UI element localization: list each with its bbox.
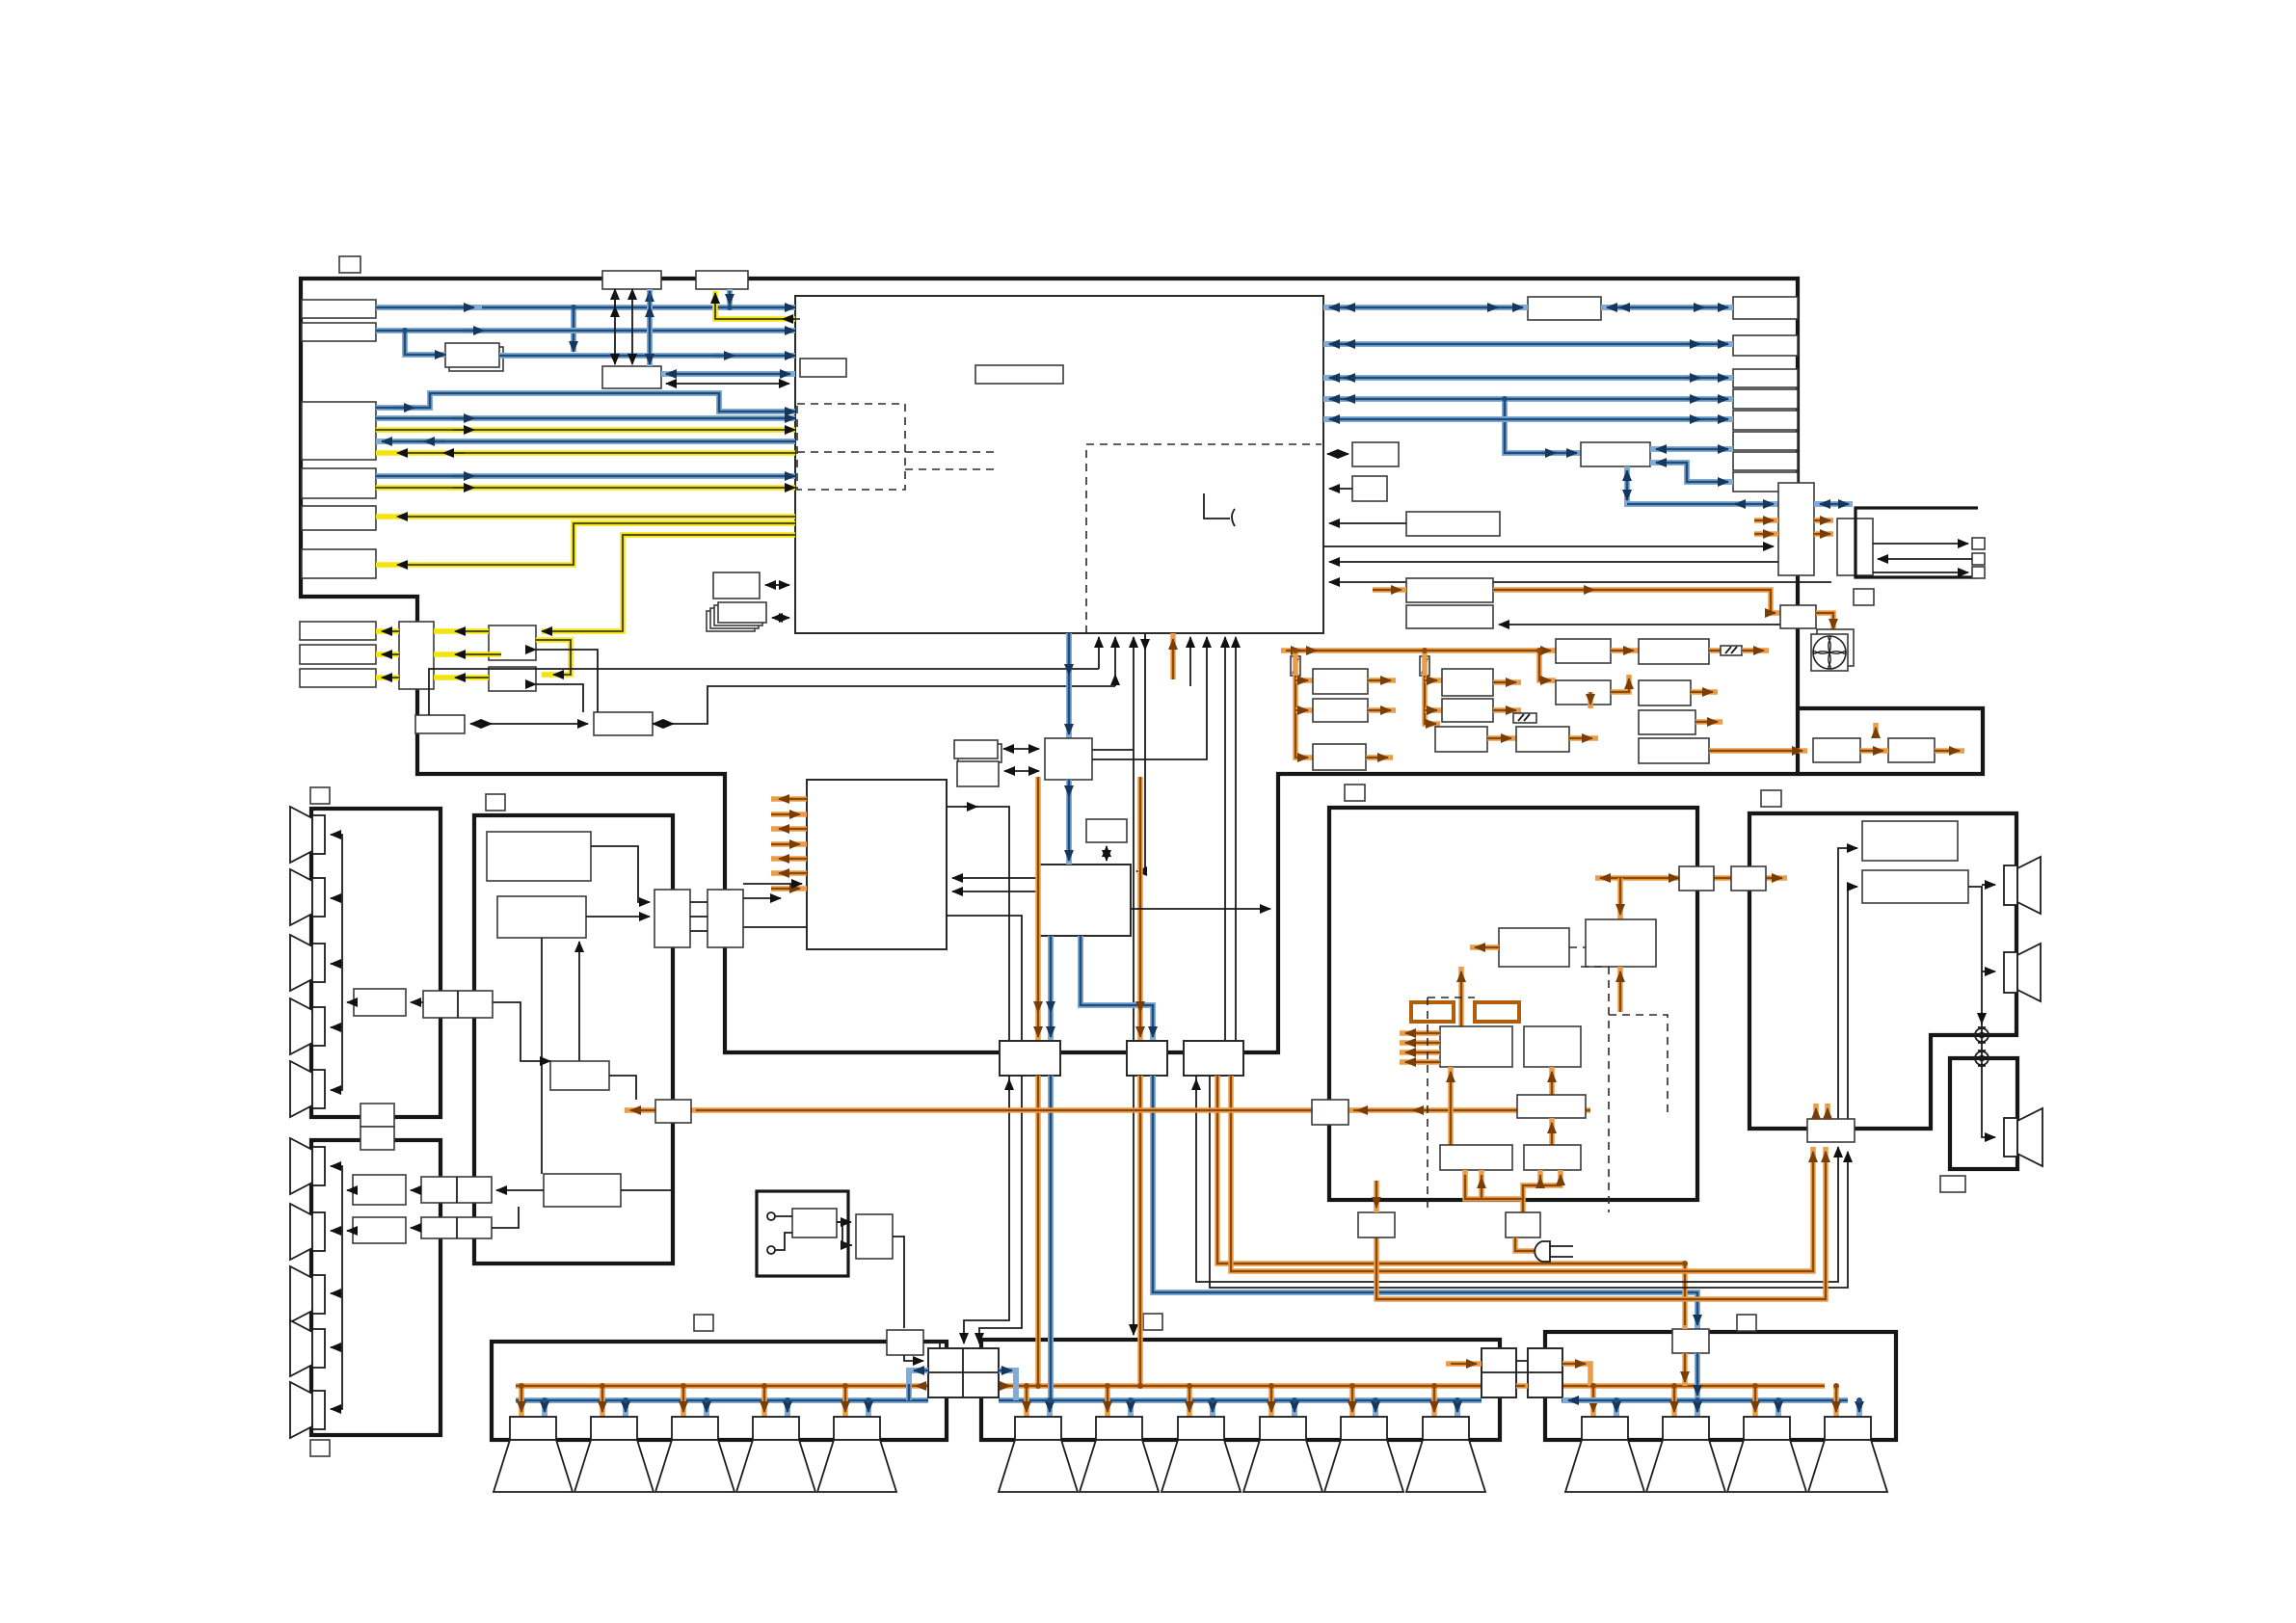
psu vertical feed down from bus	[1588, 692, 1593, 708]
amp box B1 section A	[354, 989, 406, 1016]
yellow wire main to input3 e	[376, 450, 795, 456]
speaker C3 feed	[1187, 1386, 1192, 1417]
small box above dsp	[1086, 819, 1127, 842]
section label bottom-center	[1143, 1314, 1162, 1330]
main system LSI box	[795, 296, 1323, 633]
ac cord to plug	[1515, 1237, 1542, 1251]
speaker A flare 4	[290, 998, 325, 1054]
orange RA7 to RA5	[1549, 1118, 1555, 1145]
speaker R2 feed	[1671, 1386, 1677, 1417]
yellow loop S3 to S4	[536, 640, 571, 675]
wires H2 to terminals	[1873, 543, 1968, 545]
transformer terminal 1	[767, 1212, 775, 1220]
speaker A flare 5	[290, 1061, 325, 1117]
blue branch b4 line down to M1	[1505, 399, 1581, 453]
fuse 1	[1291, 656, 1300, 676]
comm wires C1 C2	[470, 723, 588, 725]
rca jack 2	[1975, 1051, 1989, 1066]
second riser to conn A	[947, 916, 1022, 1041]
power amp section (right)	[1329, 808, 1697, 1200]
right column jack box b7	[1733, 452, 1798, 470]
bias box RA3	[1440, 1026, 1512, 1067]
main bottom pin wire to comm bus a	[1098, 637, 1100, 669]
wire connector to B1	[411, 1001, 423, 1003]
mute box mid left	[655, 1100, 691, 1123]
speaker L1 feed	[519, 1386, 524, 1417]
psu reg box d2	[1639, 680, 1691, 705]
psu reg box b1	[1442, 669, 1493, 696]
yellow wire input3 c to main	[376, 427, 795, 433]
connector box A on chassis dip	[1000, 1041, 1060, 1076]
speaker terminal bracket	[1855, 508, 1978, 577]
section label box speaker B	[310, 1440, 330, 1456]
blue jog around relay left	[909, 1370, 928, 1400]
orange e1 to e2	[1860, 748, 1888, 754]
right speaker section box RS1	[1862, 821, 1958, 861]
amp box B2 section B	[353, 1175, 406, 1205]
right column jack box b3	[1733, 369, 1798, 387]
interface small box b	[957, 761, 999, 786]
transformer inner wires	[775, 1216, 792, 1250]
input jack box 5	[302, 506, 376, 530]
ac detect box bottom	[1406, 605, 1493, 628]
long box right of main	[1406, 512, 1500, 536]
blue below connector to bus	[1695, 1353, 1700, 1400]
psu outputs a	[1368, 678, 1396, 683]
blue wire main to input3 d	[376, 439, 795, 444]
blue wire input1 to main	[376, 305, 795, 310]
section B feed bus	[331, 1166, 342, 1190]
dsp box	[1039, 865, 1131, 936]
black stubs from S3 S4 to comm box C2	[536, 650, 598, 712]
psu branch 2 vertical	[1425, 651, 1440, 724]
psu reg box b2	[1442, 699, 1493, 722]
speaker B flare 2	[290, 1204, 325, 1260]
psu reg box d1	[1639, 639, 1709, 664]
mute box mid right	[1312, 1100, 1348, 1125]
blue speaker bus center	[999, 1397, 1482, 1403]
speaker L4 feed	[761, 1386, 767, 1417]
connector section B edge 1	[421, 1177, 492, 1203]
wire big box left to chassis	[731, 926, 807, 928]
black wire main to V1	[1323, 545, 1774, 547]
black pin up into main c	[1189, 637, 1191, 686]
subwoofer box	[1950, 1058, 2017, 1169]
psu reg box a3	[1313, 744, 1366, 770]
dashed divider lines	[797, 452, 994, 469]
bidir display to main	[765, 584, 789, 586]
ac sense box I on amp bottom edge	[1358, 1212, 1395, 1237]
inter-section connector boxes	[360, 1104, 394, 1127]
yellow wires phono eq to jacks	[376, 628, 399, 634]
wire digital board to mute box	[609, 1076, 636, 1100]
yellow wire main to input6	[376, 523, 795, 565]
terminal square 1	[1972, 538, 1985, 549]
wire CB2 to connector CC1	[586, 916, 650, 918]
dashed partition amp right	[1581, 967, 1668, 1212]
relay box 2x2 left	[928, 1348, 999, 1397]
blue speaker bus left	[516, 1397, 928, 1403]
yellow wire main to input5	[376, 514, 795, 519]
orange bidir stubs big box left	[771, 796, 807, 802]
section label box amp	[1345, 785, 1365, 801]
speaker L1	[494, 1417, 573, 1492]
psu reg box c2	[1556, 680, 1611, 705]
orange framed box OB1	[1411, 1002, 1454, 1022]
orange conn C runs	[1217, 1076, 1685, 1264]
blue M1 to b6	[1650, 446, 1733, 452]
wires from bottom connector up	[1838, 848, 1857, 1119]
orange speaker bus right	[1562, 1383, 1825, 1389]
output box RA7	[1524, 1145, 1581, 1170]
right column jack box b2	[1733, 335, 1798, 356]
orange quad stubs left of RA3	[1400, 1030, 1440, 1036]
input jack box 4	[302, 468, 376, 498]
selector box S4	[489, 667, 536, 691]
digital board section (center)	[474, 815, 673, 1264]
section A feed bus	[331, 835, 342, 1002]
speaker L2	[574, 1417, 654, 1492]
dashed partition amp left	[1428, 998, 1475, 1212]
psu orange bus	[1281, 648, 1539, 653]
orange pin up into main	[1170, 633, 1176, 679]
orange branch up arrow	[1873, 723, 1879, 738]
section label box digital board	[486, 794, 505, 811]
input jack box 6	[302, 549, 376, 578]
interface box	[1045, 738, 1092, 780]
yellow wire input4 b to main	[376, 485, 795, 491]
sub box inside main (tuner i/f)	[800, 359, 846, 377]
connector CC1 on digital board edge	[654, 890, 690, 947]
top border connector box 2	[696, 271, 748, 289]
orange speaker bus left	[516, 1383, 928, 1389]
connector bottom right section top	[1672, 1329, 1709, 1353]
speaker L3 feed	[681, 1386, 686, 1417]
interface small box a with shadow	[958, 744, 1001, 762]
comm box C1	[415, 715, 465, 733]
speaker L4	[736, 1417, 815, 1492]
speaker R3 feed	[1752, 1386, 1758, 1417]
blue stub right of V1	[1814, 501, 1853, 507]
yellow wire main to selector S3	[542, 535, 795, 631]
terminal square 2	[1972, 553, 1985, 565]
driver box RA2	[1586, 919, 1656, 967]
input jack box 2	[302, 323, 376, 341]
section label subwoofer	[1940, 1176, 1965, 1192]
ac transformer box	[757, 1191, 848, 1276]
bottom connector right speaker section	[1807, 1119, 1855, 1142]
wire interface to right	[1092, 637, 1207, 759]
right speaker 2	[2004, 944, 2041, 1001]
blue wire main to b5	[1323, 416, 1733, 422]
wire DSP right to chassis edge	[1131, 908, 1270, 910]
orange RA5 top to RA4	[1549, 1067, 1555, 1095]
orange stubs into V1	[1754, 518, 1778, 523]
wires connectors to B2 B3	[411, 1189, 421, 1191]
orange RA5 to RA2	[1617, 967, 1623, 1012]
psu reg box d4	[1639, 738, 1709, 763]
wire C1 top bus line	[429, 669, 1099, 715]
hdmi switch box M1	[1581, 442, 1650, 466]
inductor d	[1709, 648, 1721, 653]
speaker A flare 2	[290, 869, 325, 925]
wire CB1 to connector CC1	[591, 846, 650, 902]
speaker C2 feed	[1105, 1386, 1110, 1417]
speaker R3	[1727, 1417, 1806, 1492]
box CB0	[550, 1061, 609, 1090]
black verticals border connector1 to tuner	[614, 289, 616, 364]
blue wires dsp bottom down	[1048, 936, 1054, 1041]
wires CC2 to big box	[743, 883, 802, 885]
connector on amp right edge	[1679, 866, 1714, 891]
orange RA3 to RA1	[1458, 967, 1464, 1026]
speaker B flare 3	[290, 1266, 325, 1322]
orange to sub board	[1709, 748, 1807, 754]
tuner pack box	[602, 366, 661, 388]
dashed link RA1 RA2	[1569, 946, 1586, 948]
psu sw box b3	[1435, 727, 1487, 752]
right speaker section	[1749, 813, 2016, 1129]
speaker out wire	[1968, 887, 1995, 1137]
blue conn A down to bus	[1048, 1076, 1054, 1400]
speaker R1 feed	[1590, 1386, 1596, 1417]
terminal square 3	[1972, 567, 1985, 578]
level box RA5	[1517, 1095, 1586, 1118]
speaker B array flare 1	[290, 1138, 325, 1194]
speaker R4	[1808, 1417, 1887, 1492]
blue M1 to b8	[1650, 463, 1733, 482]
speaker C1	[999, 1417, 1078, 1492]
blue wire main to b2	[1323, 341, 1733, 347]
transformer terminal 2	[767, 1246, 775, 1254]
long orange run to small boxes left	[625, 1107, 1590, 1113]
speaker A flare 3	[290, 935, 325, 991]
psu box c3	[1516, 727, 1569, 752]
sub board box e1	[1813, 738, 1860, 762]
black wires V1 back to main	[1329, 561, 1778, 563]
section label bottom-right	[1737, 1315, 1756, 1331]
black conn C runs to right connector	[1196, 1076, 1838, 1282]
bracket glyph	[1204, 493, 1235, 526]
wire C2 right up to bus line	[653, 686, 1115, 724]
orange out of e2	[1935, 748, 1964, 754]
black wire tuner to main	[666, 383, 789, 385]
connector box C	[1184, 1041, 1243, 1076]
speaker B flare 5	[290, 1382, 325, 1438]
right speaker section box RS2	[1862, 870, 1968, 903]
orange stubs above connector	[1813, 1104, 1819, 1119]
input jack box 1	[302, 300, 376, 318]
blue wire dac to main	[499, 353, 795, 359]
orange conn B down to bus	[1137, 1076, 1143, 1386]
right speaker 1	[2004, 857, 2041, 914]
small box R1 right of main	[1352, 442, 1399, 466]
section label box right speakers	[1761, 790, 1781, 807]
main bottom pin to interface box	[1133, 637, 1135, 1335]
orange speaker bus center	[999, 1383, 1482, 1389]
connector to speaker section	[1731, 866, 1766, 891]
fan	[1811, 629, 1854, 671]
blue wire input3 b to main	[376, 415, 795, 421]
wire CB3 to section B connector 1	[496, 1189, 544, 1191]
blue branch up to border connector 2	[727, 289, 733, 307]
power supply sub-board border	[1796, 708, 1800, 774]
speaker L5	[817, 1417, 896, 1492]
speaker C5	[1324, 1417, 1403, 1492]
speaker R2	[1646, 1417, 1725, 1492]
wire CB0 up to CB2	[578, 942, 580, 1061]
bottom-right speaker section	[1545, 1332, 1896, 1440]
black wire F0 back to ac detect	[1499, 624, 1780, 625]
main bottom pin down to dsp right	[1136, 633, 1145, 871]
right column jack box b5	[1733, 411, 1798, 430]
subwoofer speaker	[2004, 1108, 2042, 1166]
stubs feed box to relay	[923, 1343, 940, 1348]
psu outputs b	[1493, 679, 1521, 685]
bidir arrows boxes to interface	[1003, 748, 1039, 750]
edge connector V1	[1778, 483, 1814, 575]
top border connector box 1	[602, 271, 661, 289]
dashed block inside main	[797, 404, 905, 490]
orange down through connector	[1682, 1264, 1688, 1386]
fan relay box F0	[1780, 605, 1816, 628]
right column jack box b6	[1733, 432, 1798, 450]
comm box C2	[594, 712, 653, 735]
output box RA6	[1440, 1145, 1512, 1170]
wires CC1 to CC2	[690, 902, 707, 931]
driver box RA1	[1499, 928, 1569, 967]
speaker C6 feed	[1431, 1386, 1437, 1417]
blue wire input2 to main	[376, 328, 795, 333]
dashed dsp region inside main	[1086, 444, 1322, 633]
digital board box CB2	[497, 896, 586, 938]
blue branch down to dac line	[571, 307, 576, 352]
amp board orange top link	[1595, 875, 1787, 881]
wire connA cell to CB0	[493, 1002, 550, 1061]
connector box B	[1127, 1041, 1167, 1076]
arrows transformer to output box	[837, 1221, 851, 1223]
wire CB2 down to CB3	[541, 938, 543, 1174]
phono jack box 2	[300, 645, 376, 664]
speaker C1 feed	[1024, 1386, 1029, 1417]
section label box top-left	[339, 256, 360, 273]
input jack box 3	[302, 402, 376, 460]
blue wire input4 a to main	[376, 473, 795, 479]
yellow wires S3 S4 to phono eq	[434, 628, 489, 634]
chassis outline main unit	[301, 279, 1983, 1052]
speaker C3	[1161, 1417, 1241, 1492]
blue wire main to b4	[1323, 396, 1733, 402]
speaker C4 feed	[1268, 1386, 1274, 1417]
connector on section A edge	[423, 991, 493, 1018]
arrow main to R2	[1329, 488, 1352, 490]
orange into I from above	[1374, 1181, 1379, 1212]
phono jack box 3	[300, 669, 376, 687]
wide box inside main	[975, 365, 1063, 384]
wire big box to conn A riser	[947, 807, 1009, 1041]
blue into right relays	[1562, 1397, 1600, 1403]
orange lower pair to right connector	[1376, 1147, 1826, 1299]
section label bottom-left	[694, 1315, 713, 1331]
speaker C4	[1243, 1417, 1322, 1492]
main bottom pin blue down	[1066, 633, 1072, 738]
wire connector2 to digital board	[492, 1207, 519, 1228]
bottom-center speaker section	[981, 1340, 1500, 1440]
bias box RA4	[1524, 1026, 1581, 1067]
phono jack box 1	[300, 622, 376, 640]
fuse 2	[1420, 656, 1429, 676]
inductor between b3 and c3	[1487, 735, 1516, 741]
psu bus drop to regulators right	[1539, 651, 1556, 680]
blue wire input3 a to main (jog)	[376, 393, 795, 412]
blue conn B down then right	[1153, 1076, 1697, 1329]
speaker L5 feed	[842, 1386, 848, 1417]
orange RA6 to RA3	[1448, 1067, 1454, 1145]
blue branch input2 down to dac	[405, 331, 445, 355]
small box R2 right of main	[1352, 476, 1387, 501]
orange arrows at relay left	[916, 1385, 923, 1387]
psu reg box a2	[1313, 699, 1368, 722]
right column jack box b1	[1733, 297, 1798, 319]
psu reg box c1	[1556, 639, 1611, 663]
bidir main to R1	[1327, 453, 1348, 455]
speaker R1	[1565, 1417, 1644, 1492]
box H2	[1837, 519, 1873, 575]
wire output box down to relay feed box	[893, 1237, 904, 1328]
black risers conn A to relay	[964, 1076, 1009, 1344]
black wires dsp to big box	[952, 877, 1039, 879]
ac relay box H on amp bottom edge	[1506, 1212, 1540, 1237]
big box center (video/audio processor)	[807, 780, 947, 949]
right column jack box b4	[1733, 389, 1798, 409]
card slot stack	[707, 602, 766, 631]
blue M1 down then to edge connector V1	[1627, 466, 1778, 504]
bottom-left speaker section	[492, 1342, 947, 1440]
box CB3	[544, 1174, 621, 1207]
mid repeater box M0	[1528, 297, 1601, 320]
speaker B flare 4	[290, 1320, 325, 1376]
orange jog right relays	[1446, 1361, 1482, 1367]
outputs c	[1611, 648, 1639, 653]
wire CB3 right to edge	[621, 1189, 673, 1191]
wire B1 to bus	[347, 1001, 354, 1003]
phono eq amp tall box	[399, 622, 434, 689]
orange risers into conn A B	[1035, 777, 1041, 1041]
rca jack 1	[1975, 1027, 1989, 1043]
speaker R4 feed	[1833, 1386, 1839, 1417]
speaker C2	[1080, 1417, 1159, 1492]
speaker C6	[1406, 1417, 1485, 1492]
wires B2 B3 to bus	[347, 1189, 353, 1191]
transformer inner box	[792, 1209, 837, 1237]
wire long box to main	[1329, 522, 1406, 524]
speaker L2 feed	[600, 1386, 605, 1417]
digital board box CB1	[487, 832, 591, 881]
selector box S3	[489, 625, 536, 660]
junction dots speaker buses	[519, 648, 1839, 1389]
blue speaker bus right	[1562, 1397, 1848, 1403]
connector section B edge 2	[421, 1217, 492, 1238]
orange drop to driver box	[1617, 878, 1623, 919]
bidir dsp to small box	[1106, 846, 1108, 861]
connector CC2	[707, 890, 743, 947]
surround speaker section B (left)	[311, 1140, 441, 1435]
transformer output box	[856, 1214, 893, 1259]
psu reg box a1	[1313, 669, 1368, 694]
sub board box e2	[1888, 738, 1935, 762]
blue wire main to b3	[1323, 375, 1733, 381]
orange manifold from H box	[1465, 1170, 1561, 1212]
